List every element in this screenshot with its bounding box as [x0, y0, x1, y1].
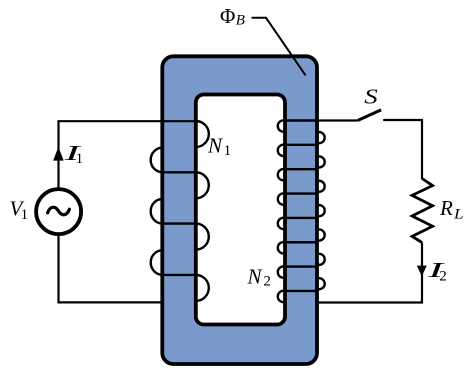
secondary left loop 7 — [278, 266, 285, 277]
resistor RL zigzag — [412, 179, 433, 243]
secondary right loop 6 — [317, 254, 325, 265]
primary right arc 1 — [196, 121, 209, 147]
secondary right loop 4 — [317, 205, 325, 216]
primary left arc 2 — [151, 199, 163, 224]
svg-text:L: L — [453, 207, 464, 223]
secondary winding N2 crossing line 6 — [285, 241, 317, 243]
secondary left loop 2 — [278, 145, 285, 156]
primary winding N1 crossing line L3 — [162, 222, 196, 224]
wire: switch to top-right corner, down to resistor — [383, 120, 422, 179]
svg-text:S: S — [364, 85, 378, 109]
primary right arc 4 — [196, 275, 209, 301]
primary right arc 2 — [196, 172, 209, 198]
secondary winding N2 crossing line 2 — [285, 144, 317, 146]
primary right arc 3 — [196, 224, 209, 250]
secondary winding N2 crossing line 4 — [285, 192, 317, 194]
primary left arc 1 — [151, 148, 163, 173]
secondary right loop 2 — [317, 156, 325, 167]
wire: secondary top line to switch — [317, 119, 358, 121]
primary left arc 3 — [151, 250, 163, 274]
secondary left loop 6 — [278, 242, 285, 253]
secondary left loop 3 — [278, 169, 285, 180]
secondary right loop 5 — [317, 230, 325, 241]
secondary left loop 1 — [278, 120, 285, 131]
secondary left loop 4 — [278, 193, 285, 204]
pointer line to core — [252, 18, 306, 76]
primary winding N1 crossing line L4 — [162, 274, 196, 276]
secondary right loop 1 — [317, 132, 325, 143]
wire: bottom-left from source down and right to primary exit — [59, 233, 163, 302]
secondary left loop 8 — [278, 291, 285, 302]
secondary left loop 5 — [278, 218, 285, 229]
secondary right loop 7 — [317, 278, 325, 289]
svg-text:Φ: Φ — [220, 4, 235, 28]
svg-text:1: 1 — [224, 143, 232, 159]
svg-text:1: 1 — [21, 207, 29, 223]
secondary winding N2 crossing line 3 — [285, 168, 317, 170]
secondary winding N2 crossing line 8 — [285, 290, 317, 292]
secondary winding N2 crossing line 1 — [285, 119, 317, 121]
svg-text:R: R — [439, 196, 453, 220]
svg-text:N: N — [247, 264, 263, 288]
secondary winding N2 crossing line 5 — [285, 217, 317, 219]
svg-text:1: 1 — [76, 151, 84, 167]
wire: top-left from source up and right to primary — [57, 121, 59, 190]
AC source V1 circle — [36, 189, 81, 234]
sine wave inside source — [48, 207, 70, 214]
svg-text:B: B — [236, 12, 245, 28]
secondary right loop 3 — [317, 181, 325, 192]
switch S blade — [358, 110, 381, 121]
primary winding N1 crossing line L2 — [162, 171, 196, 173]
current arrow I2 (down) — [417, 266, 427, 277]
wire: resistor down to bottom-right corner and left to secondary — [317, 243, 422, 303]
transformer core (blue laminated core) — [162, 56, 317, 364]
current arrow I1 (up) — [53, 147, 64, 161]
wire: primary top crossing line L1 — [57, 120, 195, 122]
svg-text:2: 2 — [439, 269, 447, 285]
secondary winding N2 crossing line 7 — [285, 265, 317, 267]
svg-text:N: N — [207, 133, 223, 157]
svg-text:2: 2 — [263, 273, 271, 289]
